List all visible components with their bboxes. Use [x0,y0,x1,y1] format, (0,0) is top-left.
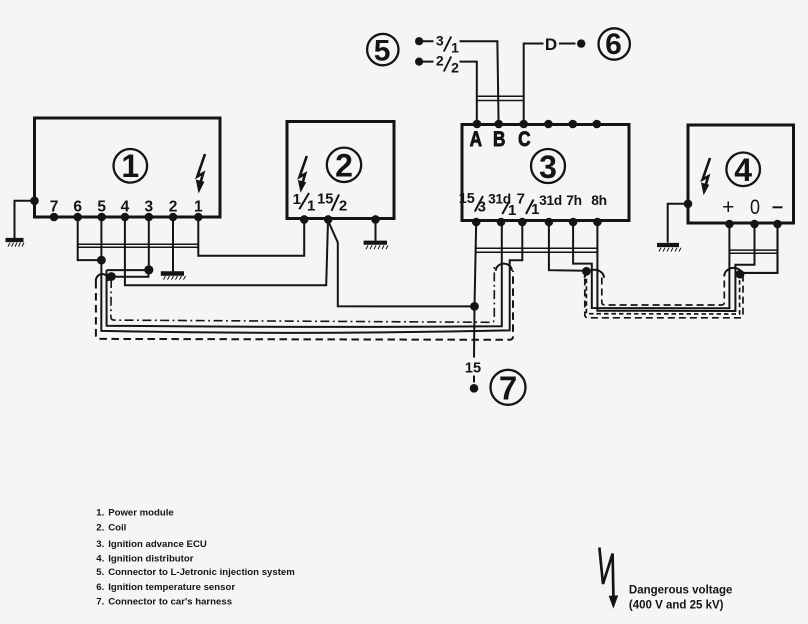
label 3/1 [436,32,459,55]
wire pin1 to box2 pin 1/1 [198,217,304,256]
circled label 1 [114,148,148,184]
wire pin C to D [524,44,576,125]
svg-text:Ignition temperature sensor: Ignition temperature sensor [108,582,235,593]
circled label 3 [531,149,565,185]
double wire 15/3 to 8h [475,248,598,252]
harness bell under ECU right [585,270,604,278]
stub diamond to harness junction [111,271,148,277]
wire pin6 down-right [78,217,102,260]
harness bell under ECU left [496,264,512,271]
svg-text:15: 15 [317,192,333,208]
svg-text:6.: 6. [96,582,104,593]
box 4 ignition distributor [688,125,794,223]
svg-text:Ignition advance ECU: Ignition advance ECU [108,539,207,550]
svg-text:6: 6 [605,28,622,61]
wire junction to pin 31d/1 via harness [107,222,502,327]
wire pin 7h to distributor plus via harness [573,222,729,308]
wire diamond junction into harness [107,269,149,271]
svg-text:7h: 7h [566,193,582,208]
pin label 7h [566,193,582,208]
ground G1 [6,240,25,247]
connector 5 dot 2/2 [415,58,423,66]
svg-text:1: 1 [451,39,459,55]
legend item 3 [96,539,207,550]
svg-text:Connector to car's harness: Connector to car's harness [108,597,232,608]
box 3 top pin labels A B C [470,127,531,151]
svg-text:3: 3 [539,149,557,185]
box 4 pin labels + 0 - [722,196,782,220]
svg-text:B: B [493,127,505,151]
svg-text:7.: 7. [96,597,104,608]
svg-text:5: 5 [374,35,391,68]
circled label 2 [327,148,361,184]
svg-text:31d: 31d [539,193,562,208]
svg-text:2: 2 [436,52,444,68]
svg-text:1: 1 [508,202,516,219]
box 4 left edge pin [684,200,693,209]
svg-text:15: 15 [459,191,475,207]
svg-text:0: 0 [750,196,760,220]
box 4 bottom pins [725,220,782,229]
svg-text:1.: 1. [96,508,104,519]
pin label 31d/1 [488,192,516,220]
box 2 bottom pins [300,215,380,224]
svg-text:7: 7 [517,191,525,208]
pin label 15/2 box 2 [317,192,347,215]
box 3 bottom pins [472,218,602,227]
wire pin 31d to junction [549,222,587,271]
legend item 4 [96,554,193,565]
box 1 power module [35,118,221,217]
svg-text:Power module: Power module [108,508,174,519]
svg-text:Ignition distributor: Ignition distributor [108,554,194,565]
svg-text:5.: 5. [96,567,104,578]
svg-text:(400 V and 25 kV): (400 V and 25 kV) [629,599,724,611]
pin label 15/3 [459,191,486,216]
harness sheath dashed right top [602,277,725,306]
pin label 8h [591,193,607,208]
harness sheath outer dashed left [96,271,513,340]
circled label 5 [367,34,398,68]
box 3 top pins [473,120,601,129]
double wire distributor plus to minus [729,250,777,253]
lightning bolt box 4 [701,158,710,195]
wire box2 right pin to ground [375,219,377,240]
junction dot 31d harness [582,267,591,276]
legend item 2 [96,522,126,533]
svg-text:2: 2 [339,198,347,215]
warning lightning arrow [599,548,618,609]
svg-text:1: 1 [293,191,301,208]
terminal dot 15 [470,384,479,393]
box 1 pin labels 7 6 5 4 3 2 1 [50,199,203,216]
svg-text:Connector to L-Jetronic inject: Connector to L-Jetronic injection system [108,567,295,578]
pin label 7/1 [517,191,540,219]
box 1 bottom pins [50,213,203,222]
svg-text:C: C [518,127,530,151]
junction dot 15 [470,302,479,311]
wire pin3 down [148,217,150,270]
svg-text:3.: 3. [96,539,104,550]
junction dot harness entry [107,272,116,281]
sensor 6 dot [577,39,585,47]
svg-text:2.: 2. [96,522,104,533]
legend item 7 [96,597,232,608]
connector 5 dot 3/1 [415,37,423,45]
double wire pin6 to pin1 column [78,244,199,247]
wire pin4 down to coil 15/2 [125,217,328,285]
svg-text:A: A [470,127,482,151]
top crossing double lines [477,96,524,100]
svg-text:Coil: Coil [108,522,126,533]
harness sheath dashed right bottom [585,277,743,318]
wire pin2 to ground [172,217,174,271]
lightning bolt box 2 [298,156,307,193]
wire pin 8h to distributor 0 via harness [597,222,754,311]
warning text [629,585,733,612]
junction dot under pin3 [144,265,153,274]
circled label 7 [491,370,526,407]
svg-text:1: 1 [121,148,139,184]
wire 2/2 to pin A [423,62,477,124]
wire 15/3 down to terminal 15 [474,222,476,383]
ground G2 [161,274,186,280]
ground G4 [657,245,681,252]
ground G3 [364,243,388,250]
svg-text:15: 15 [465,361,481,377]
svg-text:2: 2 [335,148,353,184]
pin label 1/1 box 2 [293,191,316,214]
wire box4 left to ground [668,204,688,243]
wire box1 left to ground [15,201,35,238]
wire coil 15/2 to ECU 15/3 line [328,221,474,306]
svg-text:7: 7 [499,370,517,407]
legend item 6 [96,582,235,593]
svg-text:8h: 8h [591,193,607,208]
lightning bolt box 1 [196,154,205,194]
svg-text:1: 1 [307,197,315,214]
harness sheath dash-dot inner left [111,265,494,323]
svg-text:3: 3 [478,199,486,216]
label 2/2 [436,52,459,75]
svg-text:4.: 4. [96,554,104,565]
svg-text:Dangerous voltage: Dangerous voltage [629,585,733,597]
svg-text:2: 2 [451,59,459,75]
junction dot distributor minus [736,270,745,279]
box 3 ignition advance ECU [462,125,629,221]
wire pin5 to pin 7/1 via harness [101,217,522,333]
legend item 1 [96,508,173,519]
harness bell left cup [96,274,109,281]
svg-text:4: 4 [734,152,752,188]
label D [545,35,557,54]
dash-dot wire 31d junction to distributor minus [586,271,739,314]
box 1 left edge pin [30,197,39,206]
svg-text:+: + [722,196,734,219]
circled label 6 [599,28,630,61]
circled label 4 [726,152,760,188]
legend item 5 [96,567,294,578]
harness bell under distributor [724,268,743,277]
svg-text:D: D [545,35,557,54]
wire distributor minus [741,224,778,273]
pin label 31d [539,193,562,208]
wire 3/1 to pin B [423,41,499,124]
junction dot pin5 line [97,256,106,265]
svg-text:3: 3 [436,32,444,48]
label 15 [465,361,481,377]
box 2 coil [287,122,394,219]
